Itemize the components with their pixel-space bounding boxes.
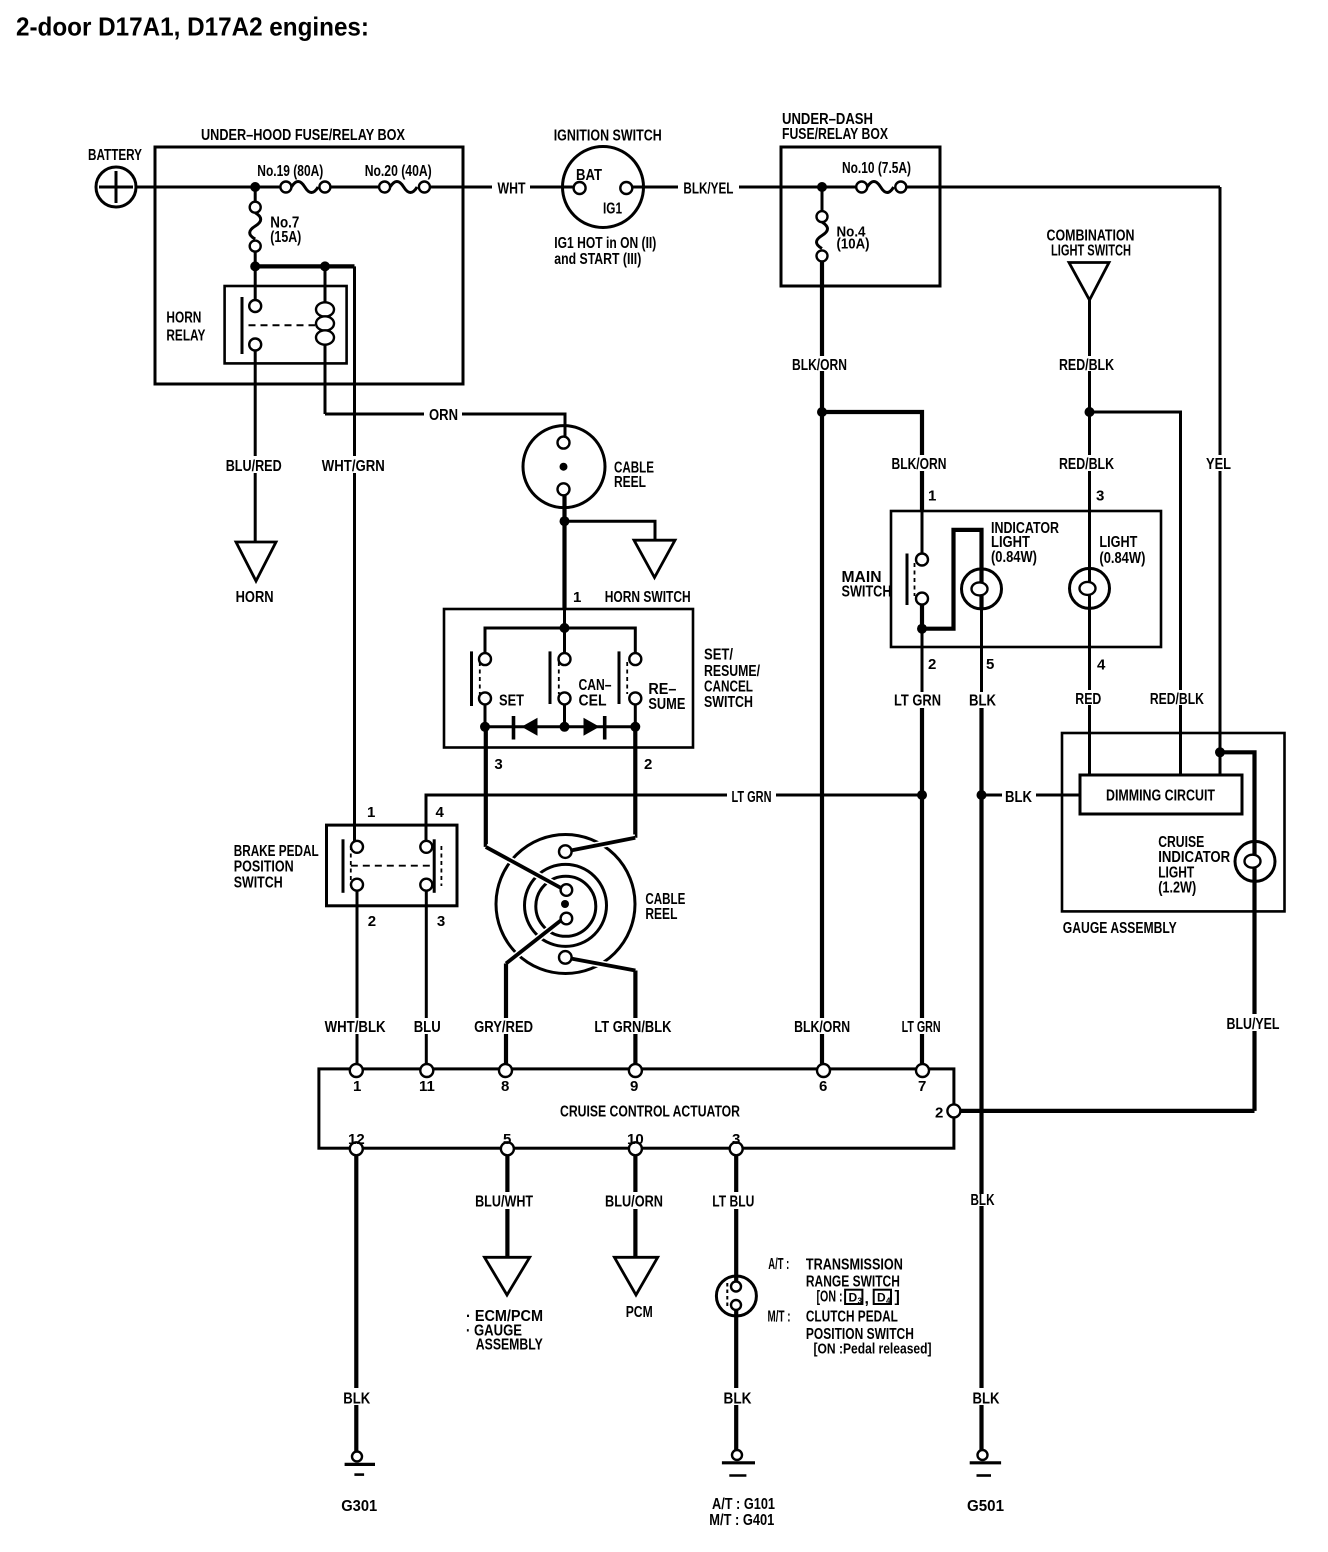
svg-text:4: 4 [1097,657,1106,674]
svg-text:CAN–: CAN– [579,677,612,694]
relay contact bar [241,297,244,354]
branch RED/BLK to dimming circuit [1090,412,1181,690]
svg-text:G501: G501 [967,1498,1004,1515]
relay dashed actuator line [249,324,316,326]
actuator bottom pins [350,1142,363,1155]
svg-text:LT GRN: LT GRN [732,789,772,806]
svg-text:GAUGE ASSEMBLY: GAUGE ASSEMBLY [1063,920,1177,937]
svg-text:WHT/GRN: WHT/GRN [322,458,385,475]
internal bus [563,609,566,628]
svg-text:ASSEMBLY: ASSEMBLY [476,1337,543,1354]
cruise indicator light bulb (1.2W) [1158,834,1275,897]
pin 2 actuator right [947,1104,960,1117]
fuse No.19 (80A) [257,163,330,193]
relay contact terminals [254,266,257,300]
wire set pin3 down and diagonal to reel [484,748,488,847]
wire LT GRN/BLK reel to actuator pin9 [633,971,637,1019]
branch YEL to cruise indicator bulb [1220,752,1255,881]
svg-text:DIMMING CIRCUIT: DIMMING CIRCUIT [1106,788,1215,805]
svg-text:BLK: BLK [973,1391,1000,1408]
ground G501 [967,1450,1004,1515]
svg-text:3: 3 [1096,488,1104,505]
svg-text:BATTERY: BATTERY [88,147,142,164]
svg-text:SWITCH: SWITCH [842,584,892,601]
fuse No.4 (10A) vertical [817,187,870,261]
svg-text:3: 3 [858,1297,863,1306]
svg-text:(0.84W): (0.84W) [1099,550,1145,567]
svg-text:BLK: BLK [343,1391,370,1408]
svg-text:(10A): (10A) [837,236,870,253]
svg-text:11: 11 [419,1078,435,1095]
svg-text:6: 6 [819,1078,827,1095]
svg-text:CANCEL: CANCEL [704,679,753,696]
svg-text:BLK: BLK [724,1391,752,1408]
svg-text:No.10 (7.5A): No.10 (7.5A) [842,160,911,177]
svg-text:A/T :: A/T : [768,1256,789,1273]
svg-text:LIGHT SWITCH: LIGHT SWITCH [1051,243,1131,260]
wire WHT/GRN from fuse7 bus down [353,266,356,456]
svg-text:2: 2 [935,1105,943,1122]
svg-text:HORN: HORN [236,589,274,606]
battery B1 [88,147,142,207]
svg-text:GRY/RED: GRY/RED [474,1019,533,1036]
svg-text:2: 2 [368,913,376,930]
under-dash fuse/relay box [781,111,940,286]
svg-text:10: 10 [627,1131,644,1148]
wire LT GRN from main switch pin 2 [921,629,924,692]
svg-text:BRAKE PEDAL: BRAKE PEDAL [234,843,319,860]
wire fuse20 to ignition switch, WHT label gap [430,186,492,189]
svg-text:9: 9 [630,1078,638,1095]
svg-text:LT GRN/BLK: LT GRN/BLK [594,1019,671,1036]
clutch pedal position switch / transmission range switch [716,1276,756,1316]
diode D2 [584,718,600,736]
wire YEL riser [1219,187,1222,455]
svg-text:BLK: BLK [1005,789,1032,806]
svg-text:1: 1 [573,589,581,606]
branch to horn switch connector [565,521,656,540]
svg-text:CRUISE CONTROL ACTUATOR: CRUISE CONTROL ACTUATOR [560,1104,740,1121]
svg-text:LIGHT: LIGHT [1099,534,1137,551]
svg-text:RESUME/: RESUME/ [704,663,760,680]
svg-text:and START (III): and START (III) [554,251,641,268]
wire between fuses [330,186,379,189]
svg-text:4: 4 [436,804,445,821]
fuse No.10 (7.5A) [842,160,911,193]
horn switch / set-resume-cancel switch box [444,609,760,748]
svg-text:RED/BLK: RED/BLK [1150,691,1204,708]
wire BLU/ORN pin10 to PCM [633,1155,637,1192]
CANCEL switch [550,651,612,709]
horn connector triangle [236,542,276,581]
wire ORN to cable reel [325,413,424,416]
svg-text:IGNITION SWITCH: IGNITION SWITCH [554,128,662,145]
brake switch contacts [343,839,441,893]
reel diagonal wires with white casing [486,847,562,889]
svg-text:,: , [865,1291,869,1308]
fuse No.7 (15A) vertical [250,187,302,266]
wire RED/BLK from combination switch [1088,300,1091,356]
svg-text:BLK: BLK [971,1192,995,1209]
branch BLK/ORN to main switch pin 1 [822,412,922,455]
wire fuse10 to YEL riser [906,186,1220,189]
node under-dash bus [817,182,827,192]
reel terminals [559,845,572,858]
wire LT BLU pin3 down [734,1155,738,1192]
svg-text:2: 2 [644,756,652,773]
ground G301 [341,1452,377,1516]
under-hood fuse/relay box [155,127,463,384]
svg-text:[ON :Pedal released]: [ON :Pedal released] [814,1341,932,1358]
svg-text:RELAY: RELAY [166,328,205,345]
svg-text:G301: G301 [341,1498,377,1515]
svg-text:D: D [877,1291,886,1305]
svg-text:3: 3 [732,1131,740,1148]
svg-text:SET/: SET/ [704,647,733,664]
diode D1 [512,716,516,740]
svg-text:[ON :: [ON : [817,1289,843,1306]
svg-text:1: 1 [353,1078,361,1095]
svg-text:FUSE/RELAY BOX: FUSE/RELAY BOX [782,126,888,143]
SET switch [472,651,525,709]
svg-text:LT GRN: LT GRN [902,1019,941,1036]
svg-text:PCM: PCM [626,1304,653,1321]
wire BLK pin12 to G301 [354,1155,358,1388]
wire BLU/WHT pin5 to ECM/PCM [505,1155,509,1192]
svg-text:INDICATOR: INDICATOR [1158,849,1230,866]
svg-text:CLUTCH PEDAL: CLUTCH PEDAL [806,1309,898,1326]
svg-text:SWITCH: SWITCH [234,875,283,892]
svg-text:1: 1 [367,804,375,821]
svg-text:BLK: BLK [969,693,996,710]
svg-text:LT GRN: LT GRN [894,693,941,710]
svg-text:No.20 (40A): No.20 (40A) [365,163,432,180]
svg-text:TRANSMISSION: TRANSMISSION [806,1257,903,1274]
wire to indicator bulb (Z path) [922,530,982,629]
wire IG1 to under-dash box, BLK/YEL [632,186,678,189]
svg-text:UNDER–HOOD FUSE/RELAY BOX: UNDER–HOOD FUSE/RELAY BOX [201,127,405,144]
svg-text:12: 12 [348,1131,365,1148]
svg-text:2: 2 [928,656,936,673]
svg-text:5: 5 [503,1131,511,1148]
svg-text:ORN: ORN [429,407,458,424]
svg-text:BLU/ORN: BLU/ORN [605,1194,663,1211]
svg-text:1: 1 [928,488,936,505]
svg-text:RED: RED [1075,691,1101,708]
svg-text:BLK/YEL: BLK/YEL [683,181,733,198]
svg-text:POSITION: POSITION [234,859,294,876]
svg-text:4: 4 [886,1297,891,1306]
ECM/PCM connector triangle [485,1257,530,1295]
wire BLU/YEL actuator pin2 to cruise indicator [960,1109,1254,1113]
svg-text:2-door D17A1, D17A2 engines:: 2-door D17A1, D17A2 engines: [16,12,369,42]
svg-text:D: D [849,1291,858,1305]
wire BLK clutch switch to G101/G401 [734,1309,738,1388]
combination light switch connector [1047,228,1135,301]
BLK branch to dimming circuit [977,790,987,800]
svg-text:IG1 HOT in ON (II): IG1 HOT in ON (II) [554,235,656,252]
svg-text:IG1: IG1 [603,201,622,218]
svg-text:BLU/YEL: BLU/YEL [1227,1016,1280,1033]
wire battery to fuse box bus [136,186,280,189]
svg-text:8: 8 [501,1078,509,1095]
wire BLU brake pin3 to actuator pin11 [425,891,428,1018]
svg-text:5: 5 [986,656,994,673]
wire relay contact to horn (BLU/RED) [254,351,257,457]
gauge assembly box [1062,733,1285,937]
svg-text:(0.84W): (0.84W) [991,549,1037,566]
svg-text:HORN SWITCH: HORN SWITCH [605,589,691,606]
wire pin3 to cable reel [484,727,488,748]
svg-text:3: 3 [437,913,445,930]
svg-text:A/T : G101: A/T : G101 [712,1496,775,1513]
svg-text:BLK/ORN: BLK/ORN [892,456,947,473]
ignition switch [554,128,662,269]
node: fuse7 output bus [255,264,354,268]
svg-text:HORN: HORN [166,310,201,327]
cable reel lower [496,835,635,974]
LT GRN bus to brake switch pin 4 [426,795,727,841]
svg-text:SET: SET [499,693,524,710]
svg-text:BLK/ORN: BLK/ORN [794,1019,850,1036]
svg-text:No.19 (80A): No.19 (80A) [257,163,323,180]
svg-text:BLK/ORN: BLK/ORN [792,357,847,374]
brake pedal position switch [234,825,457,906]
svg-text:(15A): (15A) [270,229,301,246]
svg-text:SUME: SUME [648,696,685,713]
svg-text:M/T : G401: M/T : G401 [709,1512,774,1529]
wire WHT/BLK brake pin2 to actuator pin1 [356,891,359,1018]
actuator top pins [350,1064,363,1077]
svg-text:RED/BLK: RED/BLK [1059,456,1114,473]
wire BLK from indicator bulb pin 5 [980,609,983,692]
svg-text:BLU/WHT: BLU/WHT [475,1194,533,1211]
svg-text:(1.2W): (1.2W) [1158,880,1196,897]
wire relay coil to ORN line [324,344,327,414]
indicator light bulb (0.84W) [962,520,1060,609]
wire GRY/RED reel to actuator pin8 [504,964,508,1019]
dimming circuit box [1080,775,1242,814]
wire pin2 to cable reel [633,727,637,748]
wire RED from light bulb pin 4 to dimming circuit [1088,608,1091,690]
fuse No.20 (40A) [365,163,432,193]
RESUME switch [619,651,686,713]
relay coil [324,266,327,302]
main switch contact [907,511,928,634]
svg-text:M/T :: M/T : [768,1309,791,1326]
svg-text:RED/BLK: RED/BLK [1059,357,1114,374]
svg-text:BLU: BLU [414,1019,441,1036]
svg-text:REEL: REEL [614,474,646,491]
svg-text:BLU/RED: BLU/RED [226,458,282,475]
wire resume pin2 down and diagonal to reel [633,748,637,838]
PCM connector triangle [614,1257,657,1295]
svg-text:WHT: WHT [498,181,526,198]
ground G101/G401 [709,1450,775,1529]
horn switch connector triangle [634,540,675,577]
svg-text:SWITCH: SWITCH [704,694,753,711]
svg-text:LT BLU: LT BLU [712,1194,754,1211]
horn relay K1 [166,266,346,363]
diode bus [485,704,635,726]
cruise control actuator box [319,1069,954,1148]
wire cable reel to horn switch [562,495,566,609]
light bulb (0.84W) right [1070,511,1146,608]
svg-text:]: ] [895,1289,900,1306]
svg-text:7: 7 [918,1078,926,1095]
cable reel upper [523,426,654,508]
svg-text:YEL: YEL [1206,456,1231,473]
svg-text:REEL: REEL [645,906,677,923]
svg-text:CEL: CEL [579,693,607,710]
svg-text:3: 3 [494,756,502,773]
svg-text:WHT/BLK: WHT/BLK [325,1019,386,1036]
main switch box [842,511,1162,647]
wire BLK/ORN down from fuse4 [820,261,824,356]
